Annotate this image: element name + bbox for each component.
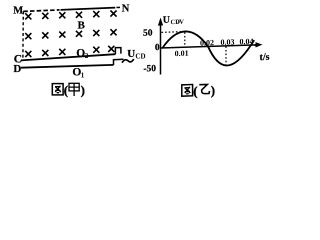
- svg-text:): ): [211, 83, 215, 98]
- svg-text:0.01: 0.01: [175, 49, 189, 58]
- field boundary top solid segment: [61, 8, 116, 10]
- svg-text:M: M: [13, 6, 23, 17]
- flux crosses row 2: [25, 29, 116, 39]
- svg-text:U: U: [163, 15, 170, 26]
- caption glyph jia of 图(甲): [69, 83, 79, 96]
- wire jumper from upper rail: [115, 48, 121, 55]
- svg-text:U: U: [127, 48, 135, 60]
- svg-text:(: (: [193, 83, 197, 98]
- svg-text:): ): [81, 83, 85, 98]
- svg-text:50: 50: [143, 28, 153, 38]
- dotted drop line at t=0.01: [184, 32, 186, 46]
- dotted level line at 50: [162, 31, 185, 34]
- dashed field boundary left edge: [22, 11, 24, 57]
- sine curve: [163, 29, 255, 67]
- svg-text:N: N: [122, 3, 130, 14]
- flux crosses row 3: [25, 46, 114, 57]
- svg-text:CD: CD: [135, 53, 145, 61]
- dotted drop line at t=0.03: [225, 46, 227, 67]
- svg-text:D: D: [13, 63, 21, 75]
- y-axis arrowhead: [158, 17, 163, 25]
- svg-text:0.03: 0.03: [221, 37, 235, 46]
- dashed field boundary top-left segment: [23, 10, 59, 12]
- graph x-axis: [161, 45, 257, 48]
- upper rail C: [21, 54, 116, 60]
- x-axis arrowhead: [256, 42, 263, 48]
- caption glyph tu of 图(甲): [52, 84, 63, 95]
- lower rail D: [21, 65, 114, 68]
- field boundary top short dash before N: [117, 6, 121, 8]
- AC source tilde: [122, 59, 134, 63]
- svg-text:0.04: 0.04: [240, 37, 254, 46]
- graph y-axis: [160, 20, 162, 75]
- svg-text:-50: -50: [143, 64, 156, 74]
- caption glyph yi of 图(乙): [199, 84, 209, 93]
- svg-text:t/s: t/s: [260, 52, 270, 63]
- svg-text:/V: /V: [177, 19, 185, 26]
- caption glyph tu of 图(乙): [182, 85, 193, 97]
- svg-text:(: (: [64, 83, 68, 98]
- svg-text:B: B: [78, 19, 86, 31]
- svg-text:0.02: 0.02: [200, 38, 214, 47]
- svg-text:0: 0: [155, 43, 160, 53]
- svg-text:1: 1: [81, 71, 85, 79]
- wire step from lower rail: [114, 59, 124, 65]
- flux crosses row 1: [25, 11, 116, 20]
